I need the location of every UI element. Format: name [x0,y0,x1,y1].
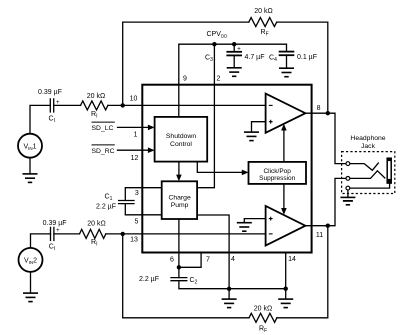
svg-text:Headphone: Headphone [350,135,385,142]
node pin 13 junction [121,232,125,236]
wire RI bottom to pin 13 and op-amp inverting input [106,233,266,235]
jack sleeve wire to plug body [350,183,390,188]
wire pin 7 jog to pin 6 node [179,253,201,268]
wire pin 2 riser down to charge pump output [197,44,214,188]
wire VIN2 to capacitor CI bottom [31,234,51,248]
svg-text:20 kΩ: 20 kΩ [254,306,272,313]
capacitor C4 plates [279,52,295,56]
wire VIN1 to capacitor CI [30,105,50,133]
wire shutdown control to click/pop suppression [197,162,244,173]
svg-text:10: 10 [130,96,138,103]
arrow shutdown to charge pump [176,162,182,182]
svg-text:0.39 µF: 0.39 µF [38,89,62,96]
capacitor C3 plates [226,52,242,56]
block text charge pump [168,195,191,210]
block text shutdown control [166,133,196,148]
wire bottom op-amp output to pin 11 and jack ring [305,178,346,225]
capacitor CI bottom plates [51,227,54,240]
node pin 8 feedback [326,111,330,115]
svg-text:14: 14 [288,256,296,263]
source VIN2 [19,248,43,272]
jack sleeve ground stem [347,190,349,198]
jack ring contact circle [346,177,350,181]
label headphone jack [350,135,385,150]
wire bottom feedback rail right riser to pin 11 [277,226,328,318]
capacitor CI top plates [50,99,53,112]
node pin 11 feedback [326,224,330,228]
svg-text:0.1 µF: 0.1 µF [297,54,317,61]
svg-text:SD_LC: SD_LC [92,125,114,132]
node pin 14 ground junction [284,287,288,291]
svg-text:7: 7 [206,257,210,264]
svg-text:20 kΩ: 20 kΩ [87,221,105,228]
capacitor C3 stems [233,44,235,68]
svg-text:Control: Control [170,141,192,148]
op-amp A2 bottom [266,206,306,246]
wire RI top to pin 10 and op-amp inverting input [108,104,266,106]
wire pin 14 drop [285,253,287,289]
ground jack sleeve [340,197,355,204]
ground below VIN2 [23,272,38,302]
svg-text:20 kΩ: 20 kΩ [87,93,105,100]
arrow click/pop to top op-amp [281,124,287,162]
op-amp A2 plus sign [269,217,273,221]
node CPVDD [212,42,216,46]
node C3 tap [232,42,236,46]
svg-text:Suppression: Suppression [259,175,296,182]
svg-text:5: 5 [134,219,138,226]
svg-text:11: 11 [316,232,323,239]
resistor RF bottom zigzag [249,313,277,322]
svg-text:2.2 µF: 2.2 µF [139,276,159,283]
jack plug body [387,158,392,184]
op-amp A1 minus sign [269,104,273,106]
wire charge pump to pin 4 riser [197,215,229,289]
node pin 6 pin 7 junction [177,265,181,269]
wire top feedback rail right riser to pin 8 [277,22,328,113]
resistor RI bottom zigzag [80,229,106,238]
wire C1 to pin 5 [125,204,161,215]
wire bottom feedback rail left riser [123,234,249,318]
ground top op-amp plus input [244,132,259,141]
svg-text:0.39 µF: 0.39 µF [43,220,67,227]
svg-text:Shutdown: Shutdown [166,133,196,140]
IC package outline [142,85,311,253]
svg-text:13: 13 [130,236,138,243]
charge pump block [162,181,197,219]
op-amp A1 top [266,94,306,133]
svg-text:3: 3 [135,190,139,197]
headphone jack dashed enclosure [342,152,395,194]
net label SD_RC [92,145,115,155]
resistor RI top zigzag [81,101,108,110]
resistor RF top zigzag [249,18,277,27]
source VIN1 [18,134,42,158]
jack sleeve contact circle [346,186,350,190]
svg-text:Jack: Jack [361,143,376,150]
ground below VIN1 [23,158,38,183]
svg-text:9: 9 [183,76,187,83]
ground below C4 [279,68,294,77]
wire pin 9 into shutdown control [178,85,180,117]
op-amp A2 minus sign [269,233,273,235]
wire top feedback rail left riser [123,22,249,105]
net label SD_LC [92,122,115,132]
shutdown control block U1 [155,117,208,162]
wire bottom op-amp noninverting input to ground [244,219,265,223]
svg-text:+: + [56,100,60,106]
wire pin 9 riser and CPVDD rail [179,44,287,84]
wire CI to resistor RI bottom [54,233,80,235]
capacitor C4 lower stem [286,55,288,68]
node pin 4 ground junction [227,287,231,291]
arrow pin 12 into shutdown control [148,147,155,153]
svg-text:6: 6 [170,257,174,264]
svg-text:12: 12 [131,155,139,162]
svg-text:8: 8 [317,105,321,112]
ground below C3 [227,68,242,77]
wire top op-amp output to pin 8 and jack tip [305,113,346,163]
wire SD_RC to pin 12 [118,149,149,151]
ground below pin 14 [278,289,293,308]
wire C2 bottom to ground rail [179,281,286,289]
block text click/pop suppression [259,168,296,182]
svg-text:+: + [237,47,241,53]
ground below pin 4 [222,289,237,308]
svg-text:4: 4 [231,256,235,263]
svg-text:SD_RC: SD_RC [92,148,115,155]
wire top op-amp noninverting input to ground [252,122,266,132]
node pin 10 junction [121,103,125,107]
svg-text:1: 1 [134,132,138,139]
click/pop suppression block [249,162,307,184]
svg-text:20 kΩ: 20 kΩ [254,8,272,15]
ground bottom op-amp plus input [237,223,252,232]
jack ring switch contact [350,171,385,179]
wire CI to resistor RI top [54,104,81,106]
wire pin 3 to flying capacitor C1 [125,188,161,201]
capacitor C1 plates [119,201,134,204]
wire SD_LC to pin 1 [118,126,149,128]
jack tip switch contact [350,163,379,170]
svg-text:Charge: Charge [168,195,191,202]
svg-text:2.2 µF: 2.2 µF [96,204,116,211]
svg-text:Click/Pop: Click/Pop [263,168,291,175]
svg-text:2: 2 [217,76,221,83]
svg-text:4.7 µF: 4.7 µF [245,54,265,61]
arrow pin 1 into shutdown control [148,125,155,131]
svg-text:+: + [56,228,60,234]
arrow click/pop to bottom op-amp [281,184,287,215]
wire charge pump bottom to pin 6 and C2 [178,219,180,278]
svg-text:Pump: Pump [171,202,189,209]
capacitor C2 plates [171,278,187,281]
arrow into click/pop suppression [242,170,249,176]
op-amp A1 plus sign [269,120,273,124]
jack tip contact circle [346,162,350,166]
